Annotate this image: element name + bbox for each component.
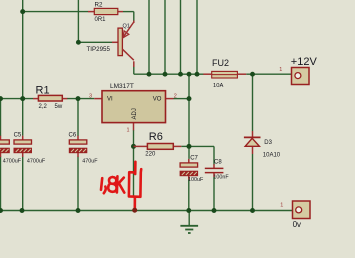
svg-text:ADJ: ADJ bbox=[132, 108, 138, 119]
svg-text:470uF: 470uF bbox=[82, 158, 98, 164]
svg-text:2,2: 2,2 bbox=[39, 104, 48, 110]
svg-text:4700uF: 4700uF bbox=[27, 158, 46, 164]
svg-text:R6: R6 bbox=[149, 131, 163, 143]
svg-text:R1: R1 bbox=[36, 84, 50, 96]
svg-text:3: 3 bbox=[89, 93, 92, 99]
svg-text:5w: 5w bbox=[55, 104, 63, 110]
svg-text:VO: VO bbox=[153, 97, 162, 103]
svg-text:0v: 0v bbox=[293, 220, 301, 229]
svg-text:C7: C7 bbox=[190, 155, 198, 161]
svg-text:FU2: FU2 bbox=[212, 58, 229, 68]
svg-text:R2: R2 bbox=[95, 1, 103, 8]
svg-text:C5: C5 bbox=[14, 132, 22, 138]
svg-text:1: 1 bbox=[127, 128, 130, 134]
svg-text:VI: VI bbox=[107, 97, 113, 103]
svg-text:TIP2955: TIP2955 bbox=[87, 46, 111, 53]
svg-text:0R1: 0R1 bbox=[95, 17, 107, 23]
svg-text:LM317T: LM317T bbox=[110, 83, 134, 90]
svg-text:1: 1 bbox=[279, 67, 282, 73]
svg-text:C6: C6 bbox=[69, 132, 77, 138]
svg-text:10A10: 10A10 bbox=[263, 152, 281, 158]
svg-text:+12V: +12V bbox=[291, 56, 318, 68]
svg-text:C8: C8 bbox=[214, 159, 222, 165]
svg-text:100nF: 100nF bbox=[213, 175, 229, 181]
svg-text:220: 220 bbox=[145, 152, 156, 158]
svg-text:D3: D3 bbox=[264, 140, 272, 146]
svg-text:10A: 10A bbox=[213, 83, 223, 89]
svg-text:1: 1 bbox=[280, 203, 283, 209]
svg-text:2: 2 bbox=[174, 94, 177, 100]
svg-text:Q1: Q1 bbox=[123, 24, 130, 30]
svg-text:4700uF: 4700uF bbox=[3, 158, 22, 164]
svg-text:100uF: 100uF bbox=[188, 177, 204, 183]
